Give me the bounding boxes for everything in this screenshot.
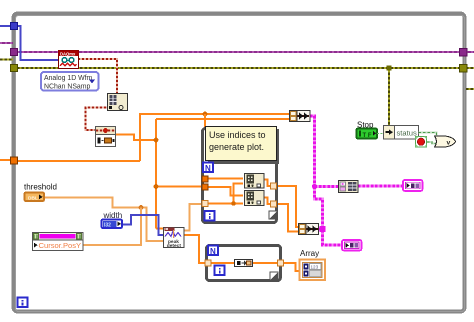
wire: cursor.posy scalar up to junction <box>83 208 141 246</box>
svg-text:T F: T F <box>363 133 372 139</box>
conversion node in loop 2 <box>235 260 253 267</box>
wire: loop1 right tunnel A to build-array2 <box>276 186 298 227</box>
index array node A <box>108 94 128 111</box>
junction dot magenta <box>312 184 317 189</box>
for loop 1 right tunnel B <box>271 201 277 207</box>
wire: purple stub outside right <box>466 51 474 53</box>
wire: orange branch down behind comment box <box>204 114 206 127</box>
index array (clusters) node <box>339 181 359 193</box>
wire: magenta index node to indicator 1 <box>358 185 403 188</box>
width I32 control <box>102 220 123 229</box>
wire: orange array stub outside left <box>0 159 11 161</box>
wire: peak locations output down to for loop 2 <box>184 235 205 263</box>
wire: green stop-btn to OR <box>427 142 438 144</box>
wire: olive stub outside right <box>466 67 474 69</box>
magenta indicator 1 <box>403 180 423 191</box>
wire: olive error wire across loop <box>17 67 461 69</box>
junction dot feeding for-loop tunnel <box>203 112 208 117</box>
svg-text:detect: detect <box>167 243 182 249</box>
junction dot node B output joins V2 <box>154 138 159 143</box>
svg-text:v: v <box>447 140 451 147</box>
build array node 2 <box>299 224 319 235</box>
for loop 1 border <box>203 129 278 223</box>
wire: loop2 output to Array indicator <box>283 263 300 271</box>
tunnel: orange on left border <box>11 157 18 164</box>
wire: orange array from left tunnel <box>17 160 140 162</box>
wire: purple task stub outside left (upper) <box>0 42 13 44</box>
for loop 2 iteration terminal i <box>215 266 225 276</box>
wire: green status to OR <box>419 133 439 140</box>
svg-text:Array: Array <box>300 249 319 258</box>
tunnel: blue on left border <box>11 23 18 30</box>
for loop 2 right tunnel <box>278 260 284 266</box>
while loop iteration terminal i <box>18 298 28 308</box>
svg-text:Cursor.PosY: Cursor.PosY <box>39 241 82 250</box>
wire: olive stub outside right lower <box>466 88 474 90</box>
svg-text:width: width <box>103 211 123 220</box>
wire: branch into for-loop tunnel 2 <box>156 186 203 188</box>
for loop 2 left tunnel <box>205 260 211 266</box>
wires inside for loop 2 <box>211 262 278 264</box>
svg-text:123: 123 <box>311 265 319 270</box>
for loop 1 left tunnel 3 <box>202 201 208 207</box>
svg-text:DAQmx: DAQmx <box>60 51 76 56</box>
wire index array D output <box>264 198 271 205</box>
index array node D <box>245 191 265 206</box>
magenta indicator 2 <box>342 240 362 251</box>
svg-text:N: N <box>205 164 211 173</box>
svg-text:N: N <box>210 247 216 256</box>
peak detect VI <box>164 228 185 250</box>
junction dot threshold/cursor <box>139 205 144 210</box>
junction on olive wire <box>387 66 392 71</box>
wire: green stop to unbundle <box>377 133 383 135</box>
wire: peak count output to loop1 lower tunnel <box>184 204 203 231</box>
junction dot V2 tunnel2 <box>154 184 159 189</box>
wire: magenta stub from build-array2 <box>318 228 323 231</box>
wire: loop1 right tunnel B to build-array2 <box>276 204 298 232</box>
svg-text:generate plot.: generate plot. <box>209 142 264 152</box>
svg-text:status: status <box>397 129 417 138</box>
junction dot on waveform wire <box>107 103 111 107</box>
comment box: Use indices to generate plot. <box>206 127 280 165</box>
Array indicator <box>300 260 326 281</box>
wire: orange array up and across to build array (H1/V1) <box>140 114 290 161</box>
tunnel: olive on right border <box>460 65 468 73</box>
unbundle status cell <box>395 126 419 140</box>
for loop 1 left tunnel 1 (indexing) <box>202 176 208 182</box>
index array node C <box>245 174 265 189</box>
svg-text:I32: I32 <box>104 222 111 228</box>
svg-text:Analog 1D Wfm: Analog 1D Wfm <box>44 75 93 82</box>
unbundle input cell <box>384 126 395 140</box>
wire: blue sample count inside <box>17 26 58 60</box>
wire: magenta down to indicator 2 <box>315 187 343 246</box>
for loop 1 right tunnel A <box>271 183 277 189</box>
svg-text:NChan NSamp: NChan NSamp <box>44 83 91 90</box>
wire: blue width into peak detect <box>122 215 164 235</box>
polymorphic selector: Analog 1D Wfm NChan NSamp <box>41 72 99 91</box>
tunnel: olive on left border <box>11 65 18 72</box>
wire: Y-array from get-components node up across to build array (H2/V2) <box>115 135 156 141</box>
wire: purple DAQmx task wire across loop <box>17 51 461 53</box>
wire tunnel3 index wire with branch <box>208 184 243 204</box>
wire tunnel2 to index array D <box>208 187 243 196</box>
for loop 2 count terminal N <box>208 246 218 257</box>
wire index array C output <box>264 180 271 187</box>
Stop boolean control <box>357 129 378 139</box>
Cursor.PosY property node <box>33 233 84 251</box>
threshold DBL control <box>25 193 45 202</box>
for loop 1 left tunnel 2 (indexing) <box>202 184 208 190</box>
DAQmx Read VI U1 <box>59 51 79 69</box>
wire: olive branch down to unbundle <box>388 68 390 126</box>
for loop 1 iteration terminal i <box>205 211 215 221</box>
wires inside for loop 1 <box>208 178 243 180</box>
for loop 1 count terminal N <box>203 163 213 174</box>
wire: blue sample-count stub outside left <box>0 25 11 27</box>
wire: olive error stub outside left <box>0 59 13 61</box>
svg-text:Use indices to: Use indices to <box>209 130 266 140</box>
build array node BA1 <box>290 111 311 122</box>
tunnel: purple on left border <box>11 49 18 56</box>
svg-text:threshold: threshold <box>24 183 57 192</box>
for loop 2 border <box>207 246 281 281</box>
wire: magenta to index node <box>315 185 339 188</box>
wire: waveform data from DAQmx read <box>78 59 117 94</box>
junction magenta at build-array2 <box>320 226 326 232</box>
wire: waveform branch to get-components node <box>86 108 111 131</box>
stop button with red LED <box>416 137 427 148</box>
svg-text:DBL: DBL <box>28 195 38 201</box>
tunnel: purple on right border <box>460 49 468 57</box>
get waveform components node B <box>96 127 116 147</box>
wire: magenta cluster from build array down <box>310 116 315 187</box>
OR gate <box>435 136 456 147</box>
wire: threshold scalar <box>44 198 164 242</box>
